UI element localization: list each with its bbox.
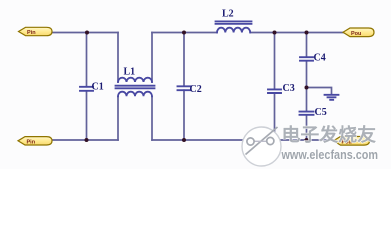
wire C2 vertical: [183, 33, 185, 141]
node junction C3 bottom rail: [273, 138, 277, 142]
inductor L1 top winding: [118, 78, 152, 82]
svg-text:C1: C1: [92, 82, 104, 93]
inductor L1 core: [116, 86, 155, 89]
svg-text:Pin: Pin: [27, 30, 36, 36]
port Pout bottom-right: [334, 137, 370, 146]
node junction C4-C5 ground tap: [305, 86, 309, 90]
wire bottom rail left segment: [52, 139, 118, 141]
node junction C2 top rail: [182, 31, 186, 35]
svg-text:电子发烧友: 电子发烧友: [282, 124, 377, 145]
port Pin top-left: [19, 27, 53, 36]
inductor L1 verticals: [118, 33, 152, 141]
node junction C2 bottom rail: [182, 138, 186, 142]
svg-text:Pin: Pin: [27, 139, 36, 145]
node junction C4 top rail: [305, 31, 309, 35]
wire C3 vertical: [274, 33, 276, 141]
wire C1 vertical: [86, 33, 88, 141]
port Pin bottom-left: [18, 137, 52, 146]
wire ground stub: [307, 88, 332, 95]
svg-text:L2: L2: [222, 9, 234, 20]
capacitor C4: [300, 57, 313, 61]
svg-text:C2: C2: [190, 84, 202, 95]
node junction C5 bottom rail: [305, 138, 309, 142]
wire top rail middle segment: [152, 32, 217, 34]
svg-text:www.elecfans.com: www.elecfans.com: [281, 148, 378, 162]
svg-text:C5: C5: [315, 107, 327, 118]
wire top rail left segment: [52, 32, 118, 34]
inductor L2 core: [216, 21, 252, 23]
wire top rail right segment: [250, 32, 343, 34]
inductor L2 winding: [217, 28, 250, 33]
watermark logo circle: [242, 127, 281, 166]
node junction C1 top rail: [85, 31, 89, 35]
capacitor C5: [300, 112, 314, 115]
node junction C1 bottom rail: [85, 138, 89, 142]
wire C4 C5 vertical: [306, 33, 308, 141]
wire bottom rail right segment: [152, 139, 334, 141]
inductor L1 bottom winding: [118, 92, 152, 97]
ground: [325, 95, 339, 100]
node junction C3 top rail: [273, 31, 277, 35]
svg-text:Pou: Pou: [351, 31, 361, 37]
svg-text:L1: L1: [124, 67, 136, 78]
capacitor C1: [80, 87, 93, 91]
svg-text:C4: C4: [314, 53, 326, 64]
svg-text:C3: C3: [283, 83, 295, 94]
capacitor C3: [268, 89, 281, 93]
port Pout top-right: [343, 28, 374, 37]
capacitor C2: [178, 86, 191, 90]
